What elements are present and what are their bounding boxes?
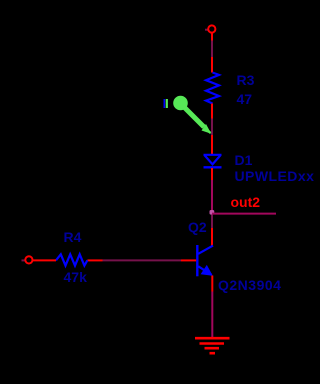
svg-text:R4: R4 — [64, 229, 82, 245]
ground (0 node) — [195, 338, 230, 353]
wire (net out2 horizontal) — [212, 213, 276, 215]
resistor R3 — [206, 73, 219, 104]
node out2 junction — [210, 210, 215, 215]
svg-text:R3: R3 — [237, 72, 255, 88]
wire — [211, 57, 213, 73]
wire (left terminal to R4) — [33, 259, 56, 261]
wire (Q2 emitter pin red) — [211, 276, 213, 292]
svg-text:D1: D1 — [235, 152, 253, 168]
wire (below R3) — [211, 104, 213, 119]
pin segment — [211, 119, 213, 136]
terminal (top power connector) — [205, 25, 215, 32]
pin (R3 top pin) — [211, 41, 213, 58]
svg-text:Q2N3904: Q2N3904 — [218, 277, 281, 293]
wire (to D1) — [211, 135, 213, 154]
wire (junction to Q2 collector) — [211, 215, 213, 229]
terminal (left connector) — [22, 256, 33, 263]
resistor R4 — [56, 254, 87, 265]
svg-text:47k: 47k — [64, 269, 88, 285]
wire (terminal to R3 pin) — [211, 33, 213, 40]
svg-text:UPWLEDxx: UPWLEDxx — [235, 168, 315, 184]
svg-text:Q2: Q2 — [188, 219, 207, 235]
svg-text:47: 47 — [237, 91, 253, 107]
wire (emitter to ground) — [211, 292, 213, 338]
wire (R4 right red) — [87, 259, 102, 261]
wire (D1 cathode pin) — [211, 168, 213, 180]
current probe marker I — [164, 96, 212, 134]
diode D1 — [204, 155, 222, 168]
wire (base net magenta) — [103, 259, 182, 261]
transistor Q2 — [197, 245, 213, 276]
wire (net out2 vertical) — [211, 180, 213, 211]
svg-text:out2: out2 — [231, 194, 261, 210]
wire (Q2 base red) — [181, 259, 196, 261]
wire (collector pin red) — [211, 228, 213, 246]
